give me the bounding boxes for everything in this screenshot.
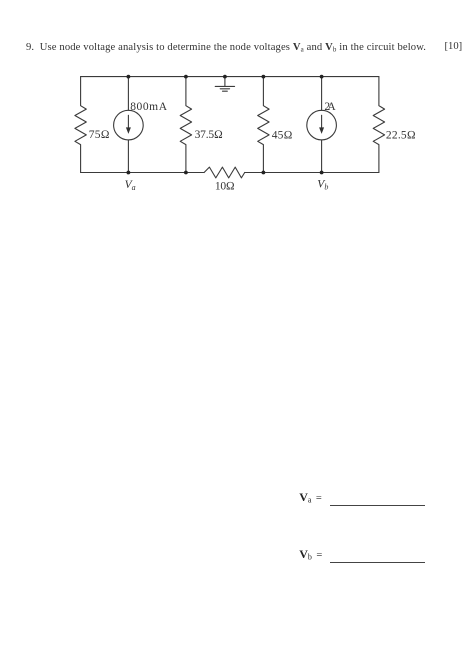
- junction dot node Vb: [320, 171, 324, 175]
- label R3 value 45Ω: [272, 129, 293, 141]
- answer label Va: [299, 490, 322, 505]
- junction dot bottom of R3: [262, 171, 266, 175]
- label R4 value 22.5Ω: [386, 130, 416, 142]
- node Va label: [125, 179, 136, 192]
- wire top bus: [81, 76, 379, 78]
- junction dot top of R2: [184, 75, 188, 79]
- label I2 value 2A: [324, 101, 336, 113]
- svg-text:10Ω: 10Ω: [215, 181, 235, 193]
- label R2 value 37.5Ω: [195, 129, 223, 141]
- svg-text:Va: Va: [125, 179, 136, 192]
- svg-text:75Ω: 75Ω: [89, 129, 110, 141]
- resistor R4 22.5ohm right branch: [373, 77, 384, 173]
- answer label Vb: [299, 547, 322, 562]
- current source I2 2A branch: [307, 77, 337, 173]
- svg-text:22.5Ω: 22.5Ω: [386, 130, 416, 142]
- svg-text:2A: 2A: [324, 101, 336, 113]
- resistor R1 75ohm left branch: [75, 77, 86, 173]
- label R1 value 75Ω: [89, 129, 110, 141]
- junction dot bottom of R2: [184, 171, 188, 175]
- marks label [10]: [445, 41, 463, 52]
- resistor R2 37.5ohm branch: [180, 77, 191, 173]
- wire bottom bus right segment: [245, 172, 379, 174]
- svg-text:45Ω: 45Ω: [272, 129, 293, 141]
- answer blank line for Va: [330, 505, 425, 506]
- junction dot top of R3: [262, 75, 266, 79]
- junction dot node Va: [126, 171, 130, 175]
- resistor R3 45ohm branch: [258, 77, 269, 173]
- resistor R5 10ohm horizontal bottom: [204, 167, 245, 178]
- junction dot top of I1: [126, 75, 130, 79]
- node Vb label: [317, 179, 328, 192]
- problem statement text: [26, 42, 426, 54]
- junction dot ground node: [223, 75, 227, 79]
- junction dot top of I2: [320, 75, 324, 79]
- wire bottom bus left segment: [81, 172, 205, 174]
- ground: [215, 77, 234, 92]
- current source I1 800mA branch: [114, 77, 144, 173]
- label I1 value 800mA: [130, 101, 167, 113]
- svg-text:Vb: Vb: [317, 179, 328, 192]
- svg-text:37.5Ω: 37.5Ω: [195, 129, 223, 141]
- svg-text:800mA: 800mA: [130, 101, 167, 113]
- answer blank line for Vb: [330, 562, 425, 563]
- label R5 value 10Ω: [215, 181, 235, 193]
